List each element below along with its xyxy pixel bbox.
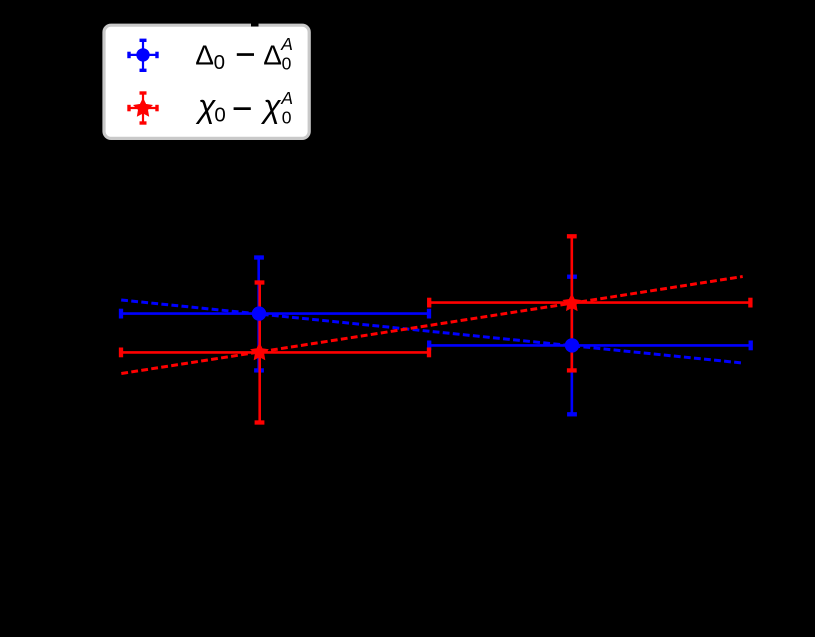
svg-text:0: 0: [214, 104, 225, 127]
svg-text:0: 0: [214, 51, 225, 74]
svg-text:A: A: [280, 88, 293, 108]
legend glyph blue: [129, 40, 157, 70]
red caps: [121, 236, 750, 422]
red errorbars: [121, 236, 750, 422]
svg-text:Δ: Δ: [195, 39, 214, 70]
svg-text:A: A: [280, 34, 293, 54]
blue errorbar left: horizontal: [121, 258, 751, 415]
legend box: [104, 25, 309, 138]
black notch on legend top border: [251, 22, 259, 27]
blue caps: [121, 258, 751, 415]
svg-text:χ: χ: [260, 88, 281, 124]
svg-text:χ: χ: [195, 88, 216, 124]
red star markers: [252, 344, 268, 359]
legend text row 1: [195, 34, 293, 74]
blue circle markers: [252, 306, 266, 320]
legend text row 2: [195, 88, 293, 128]
svg-text:0: 0: [282, 108, 292, 128]
legend glyph red: [129, 93, 157, 123]
svg-text:Δ: Δ: [263, 39, 282, 70]
svg-text:0: 0: [282, 54, 292, 74]
blue dashed fit line: [121, 300, 742, 363]
red dashed fit line: [121, 277, 742, 374]
